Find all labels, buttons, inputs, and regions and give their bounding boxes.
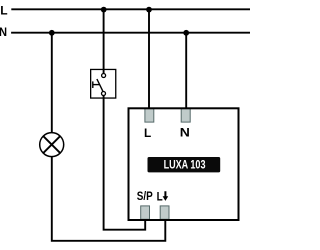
- svg-text:L: L: [0, 3, 8, 17]
- svg-text:LUXA 103: LUXA 103: [164, 158, 206, 172]
- svg-text:N: N: [180, 125, 190, 139]
- svg-text:L: L: [144, 126, 151, 140]
- svg-text:S/P: S/P: [137, 190, 153, 203]
- svg-text:L: L: [157, 191, 163, 204]
- svg-text:N: N: [0, 26, 7, 40]
